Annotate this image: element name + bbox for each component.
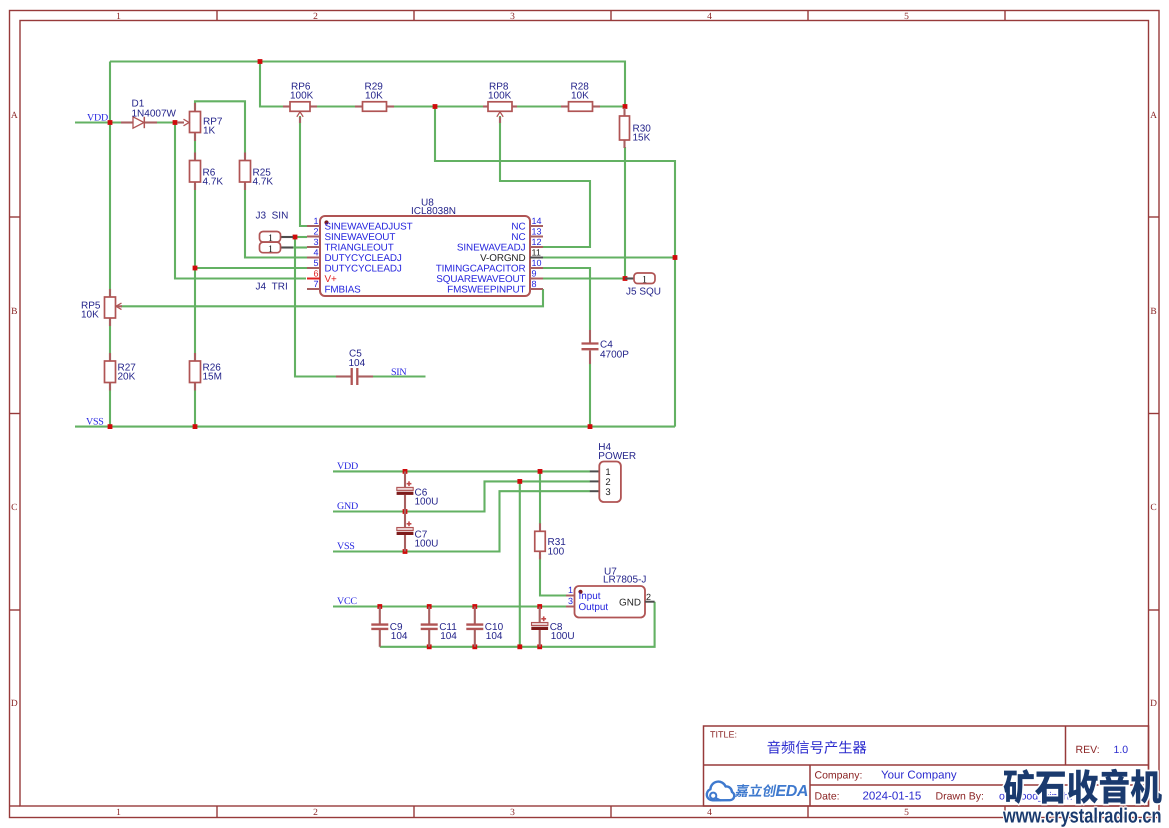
U8 pin 12 SINEWAVEADJ [530, 246, 543, 248]
svg-text:GND: GND [337, 501, 358, 512]
svg-text:FMBIAS: FMBIAS [325, 285, 362, 296]
svg-text:DUTYCYCLEADJ: DUTYCYCLEADJ [325, 253, 402, 264]
svg-text:4.7K: 4.7K [253, 177, 274, 188]
svg-text:100U: 100U [415, 497, 439, 508]
svg-text:4700P: 4700P [600, 350, 629, 361]
U8 pin 9 SQUAREWAVEOUT [530, 278, 543, 280]
svg-text:100K: 100K [290, 91, 314, 102]
svg-text:20K: 20K [118, 372, 136, 383]
watermark 矿石收音机 [1004, 769, 1162, 804]
svg-text:100U: 100U [551, 631, 575, 642]
resistor R29 [355, 105, 363, 107]
svg-text:1K: 1K [203, 126, 216, 137]
node gndrail/C11 [427, 644, 432, 649]
wire C4 bottom to VSS rail [589, 364, 591, 427]
potentiometer RP5 [109, 289, 111, 297]
node gndrail/C10 [472, 644, 477, 649]
U7 pin 3 Output [566, 606, 575, 608]
node GND/H4 pin2 branch [517, 479, 522, 484]
node VCC/C8 [537, 604, 542, 609]
svg-text:FMSWEEPINPUT: FMSWEEPINPUT [447, 285, 525, 296]
svg-text:100U: 100U [415, 539, 439, 550]
wire D1 cathode to RP7 node [157, 121, 177, 123]
wire R30 bottom to node [624, 147, 626, 279]
svg-text:Your Company: Your Company [881, 770, 957, 782]
node R6/R26/U8 pin5 [193, 266, 198, 271]
svg-text:V-ORGND: V-ORGND [480, 253, 525, 264]
capacitor C5 [336, 375, 351, 377]
svg-text:VDD: VDD [87, 112, 108, 123]
capacitor C10 [474, 607, 476, 625]
node VCC/C11 [427, 604, 432, 609]
node GND/C6/C7 [403, 509, 408, 514]
svg-text:POWER: POWER [598, 451, 636, 462]
node VSS/R26 [193, 424, 198, 429]
svg-text:10K: 10K [571, 91, 589, 102]
svg-text:D: D [1150, 699, 1157, 709]
U8 pin 2 SINEWAVEOUT [307, 236, 320, 238]
connector J4 [281, 246, 294, 248]
wire J3 to U8 pin 2 [293, 236, 307, 238]
wire R6 to R26 column [194, 184, 196, 427]
svg-text:V+: V+ [325, 274, 337, 285]
svg-text:NC: NC [511, 222, 525, 233]
svg-text:5: 5 [904, 12, 909, 22]
svg-text:4.7K: 4.7K [203, 177, 224, 188]
svg-text:SIN: SIN [391, 367, 406, 378]
svg-text:www.crystalradio.cn: www.crystalradio.cn [1002, 805, 1161, 828]
node rail2 mid tap [433, 104, 438, 109]
capacitor C6 [404, 471, 406, 487]
node rail2/R30 [623, 104, 628, 109]
svg-text:4: 4 [707, 808, 712, 818]
U8 pin 7 FMBIAS [307, 288, 320, 290]
node VCC/C9 [377, 604, 382, 609]
node J3/U8 pin2 [293, 235, 298, 240]
svg-text:SINEWAVEOUT: SINEWAVEOUT [325, 232, 396, 243]
U8 pin 6 V+ [307, 278, 320, 280]
svg-text:3: 3 [313, 237, 318, 247]
connector H4 POWER [590, 470, 600, 472]
svg-text:TITLE:: TITLE: [710, 730, 737, 740]
node VSS/RP column [108, 424, 113, 429]
svg-text:3: 3 [568, 596, 573, 606]
resistor R25 [244, 153, 246, 161]
svg-text:104: 104 [486, 631, 503, 642]
svg-text:2: 2 [646, 592, 651, 602]
wire RP7 bottom to R6 [194, 134, 196, 159]
svg-text:15K: 15K [633, 133, 651, 144]
svg-text:6: 6 [313, 269, 318, 279]
wire RP5 wiper to U8 pin 8 [121, 289, 543, 306]
svg-text:2: 2 [313, 227, 318, 237]
node gndrail/C8 [537, 644, 542, 649]
svg-text:100K: 100K [488, 91, 512, 102]
wire RP6 wiper to U8 pin 1 [300, 116, 307, 226]
svg-text:NC: NC [511, 232, 525, 243]
wire top rail VDD to R30 column [110, 62, 625, 107]
svg-text:10K: 10K [81, 310, 99, 321]
svg-text:REV:: REV: [1076, 744, 1100, 756]
logo text 嘉立创 [735, 784, 776, 797]
capacitor C11 [428, 607, 430, 625]
wire VDD netlabel stub [75, 121, 121, 123]
U8 pin 10 TIMINGCAPACITOR [530, 267, 543, 269]
svg-text:SQUAREWAVEOUT: SQUAREWAVEOUT [436, 274, 525, 285]
regulator U7 LR7805-J [575, 586, 646, 618]
wire GND branch to bottom rail [519, 481, 521, 646]
U7 pin 1 Input [566, 595, 575, 597]
node gndrail/branch [517, 644, 522, 649]
svg-text:B: B [1150, 307, 1156, 317]
svg-text:C: C [11, 503, 17, 513]
connector J5 [625, 277, 634, 279]
svg-text:LR7805-J: LR7805-J [603, 575, 646, 586]
svg-text:4: 4 [313, 248, 318, 258]
resistor R28 [561, 105, 569, 107]
svg-text:14: 14 [532, 216, 542, 226]
wire VDD power rail [333, 470, 590, 472]
node D1/RP7 wiper [173, 120, 178, 125]
U7 pin 2 GND [645, 601, 655, 603]
svg-text:Drawn By:: Drawn By: [936, 791, 984, 803]
svg-text:15M: 15M [203, 372, 222, 383]
node VDD/C6 [403, 469, 408, 474]
svg-text:VSS: VSS [86, 416, 104, 427]
svg-text:4: 4 [707, 12, 712, 22]
logo cloud icon [707, 782, 734, 801]
svg-text:B: B [11, 307, 17, 317]
svg-text:GND: GND [619, 597, 641, 608]
wire U8 pin 10 to C4 [543, 268, 590, 330]
title text 音频信号产生器 [768, 741, 867, 754]
svg-text:5: 5 [313, 258, 318, 268]
svg-text:100: 100 [548, 547, 565, 558]
wire R31 column from VDD [539, 471, 541, 524]
U8 pin 8 FMSWEEPINPUT [530, 288, 543, 290]
capacitor C9 [379, 607, 381, 625]
svg-text:1: 1 [568, 585, 573, 595]
svg-text:7: 7 [313, 279, 318, 289]
U8 pin 11 V-ORGND [530, 257, 543, 259]
wire SINEWAVEOUT to C5 [295, 237, 336, 377]
svg-text:3: 3 [605, 487, 610, 498]
wire R31 to U7 pin 1 [540, 554, 566, 596]
svg-text:J3 SIN: J3 SIN [256, 211, 289, 222]
svg-text:2024-01-15: 2024-01-15 [863, 791, 922, 803]
potentiometer RP8 [483, 105, 488, 107]
svg-text:13: 13 [532, 227, 542, 237]
svg-text:10: 10 [532, 258, 542, 268]
svg-text:1N4007W: 1N4007W [132, 109, 177, 120]
wire RP7 top loop to R25 [195, 101, 245, 158]
potentiometer RP6 [283, 105, 290, 107]
node R30/J5/U8 pin9 [623, 276, 628, 281]
wire VCC rail to U7 pin 3 [333, 605, 566, 607]
svg-text:2: 2 [313, 12, 318, 22]
svg-text:1: 1 [116, 808, 121, 818]
svg-text:3: 3 [510, 12, 515, 22]
svg-text:8: 8 [532, 279, 537, 289]
potentiometer RP7 [194, 103, 196, 112]
svg-text:SINEWAVEADJ: SINEWAVEADJ [457, 243, 526, 254]
resistor R26 [194, 353, 196, 361]
U8 pin 1 SINEWAVEADJUST [307, 225, 320, 227]
svg-text:104: 104 [391, 631, 408, 642]
U8 pin 14 NC [530, 225, 543, 227]
svg-text:3: 3 [510, 808, 515, 818]
wire RP6 feed from top rail [260, 62, 284, 107]
svg-text:ICL8038N: ICL8038N [411, 206, 456, 217]
svg-text:12: 12 [532, 237, 542, 247]
title block grid [704, 726, 1149, 806]
node V-ORGND branch [673, 255, 678, 260]
svg-text:Company:: Company: [815, 770, 863, 782]
U8 pin 5 DUTYCYCLEADJ [307, 267, 320, 269]
svg-text:J5 SQU: J5 SQU [626, 287, 661, 298]
U8 pin 4 DUTYCYCLEADJ [307, 257, 320, 259]
svg-text:DUTYCYCLEADJ: DUTYCYCLEADJ [325, 264, 402, 275]
resistor R6 [194, 153, 196, 161]
svg-text:1: 1 [268, 244, 273, 255]
svg-text:A: A [1150, 111, 1157, 121]
svg-text:EDA: EDA [776, 783, 809, 800]
svg-text:11: 11 [532, 248, 541, 258]
svg-text:9: 9 [532, 269, 537, 279]
node VDD/D1 [108, 120, 113, 125]
svg-text:VCC: VCC [337, 596, 357, 607]
resistor R27 [109, 353, 111, 361]
wire R25 to U8 pin 4 [245, 184, 307, 258]
svg-text:104: 104 [440, 631, 457, 642]
svg-text:Date:: Date: [815, 791, 840, 803]
svg-text:1: 1 [642, 275, 647, 286]
svg-text:104: 104 [349, 358, 366, 369]
wire U8 pin 9 to R30/J5 node [543, 277, 625, 279]
svg-text:A: A [11, 111, 18, 121]
svg-text:2: 2 [313, 808, 318, 818]
wire U8 pin 11 V-ORGND to right column [543, 256, 675, 258]
svg-text:1.0: 1.0 [1114, 744, 1129, 756]
wire RP8 wiper to U8 pin 12 [500, 116, 590, 247]
wire VDD column [109, 62, 111, 427]
wire VSS bottom rail [75, 426, 675, 428]
svg-text:TRIANGLEOUT: TRIANGLEOUT [325, 243, 394, 254]
node VCC/C10 [472, 604, 477, 609]
wire rail2 RP6-R29-RP8-R28 [310, 105, 625, 107]
U8 pin 3 TRIANGLEOUT [307, 246, 320, 248]
connector J3 [281, 236, 294, 238]
svg-text:10K: 10K [365, 91, 383, 102]
resistor R31 [539, 523, 541, 531]
svg-text:Output: Output [579, 602, 609, 613]
svg-text:1: 1 [313, 216, 318, 226]
wire VSS label to H4 pin 3 [333, 491, 590, 551]
svg-text:VDD: VDD [337, 461, 358, 472]
U8 pin 13 NC [530, 236, 543, 238]
svg-text:C: C [1150, 503, 1156, 513]
diode D1 [121, 121, 133, 123]
capacitor C8 [539, 607, 541, 623]
node top rail to RP6 [258, 59, 263, 64]
wire V+ column to U8 pin 6 [175, 123, 306, 279]
svg-text:D: D [11, 699, 18, 709]
capacitor C4 [589, 330, 591, 343]
wire C5 to SIN netlabel [373, 375, 426, 377]
wire mid junction down and around to VSS rail [435, 107, 675, 427]
capacitor C7 [404, 512, 406, 528]
node VSS/C7 [403, 549, 408, 554]
wire power ground bottom rail to U7 pin 2 [380, 602, 655, 647]
svg-text:TIMINGCAPACITOR: TIMINGCAPACITOR [436, 264, 526, 275]
wire node R6/R26 to U8 pin 5 [195, 267, 307, 269]
wire J4 to U8 pin 3 [293, 246, 307, 248]
svg-text:Input: Input [579, 591, 601, 602]
node VDD/R31 [538, 469, 543, 474]
svg-text:1: 1 [116, 12, 121, 22]
svg-text:5: 5 [904, 808, 909, 818]
op-amp/IC U8 ICL8038N body [320, 216, 530, 296]
svg-text:VSS: VSS [337, 541, 355, 552]
wire GND label to H4 pin 2 [333, 481, 590, 511]
svg-text:J4 TRI: J4 TRI [256, 282, 288, 293]
svg-text:SINEWAVEADJUST: SINEWAVEADJUST [325, 222, 413, 233]
resistor R30 [623, 108, 625, 116]
node VSS/C4 [588, 424, 593, 429]
